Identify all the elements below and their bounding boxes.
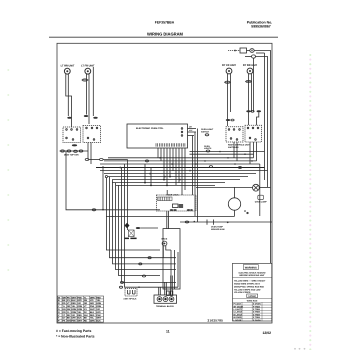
svg-text:LT FR UNIT: LT FR UNIT — [81, 64, 95, 67]
svg-text:RD: RD — [62, 302, 65, 305]
svg-text:GRY: GRY — [96, 311, 101, 314]
svg-text:TERMINAL BLOCK: TERMINAL BLOCK — [156, 305, 175, 308]
svg-text:GN: GN — [84, 299, 88, 302]
svg-text:WHT: WHT — [71, 296, 76, 299]
svg-text:E TRIM: E TRIM — [253, 308, 260, 311]
svg-text:RD: RD — [67, 314, 70, 317]
svg-text:VIO: VIO — [96, 308, 100, 311]
svg-text:E OVEN: E OVEN — [253, 319, 261, 322]
svg-text:E TRIM: E TRIM — [253, 316, 260, 319]
svg-text:VIO: VIO — [90, 299, 94, 302]
svg-text:PNK: PNK — [96, 314, 101, 317]
svg-text:RED: RED — [71, 302, 76, 305]
svg-text:WHT: WHT — [96, 317, 101, 320]
svg-text:WH: WH — [84, 314, 88, 317]
svg-text:VIO: VIO — [71, 314, 75, 317]
svg-text:YELLOW STRIPE AND LOW: YELLOW STRIPE AND LOW — [234, 288, 260, 291]
svg-text:P TRIM: P TRIM — [253, 305, 260, 308]
svg-text:PNK: PNK — [71, 320, 76, 323]
svg-text:5995360867: 5995360867 — [251, 24, 271, 28]
svg-text:OR: OR — [84, 302, 88, 305]
svg-text:RED: RED — [90, 314, 95, 317]
svg-text:PNK: PNK — [77, 296, 82, 299]
svg-text:B LATCH: B LATCH — [234, 313, 243, 316]
svg-text:E TRIM: E TRIM — [253, 313, 260, 316]
svg-text:E TRIM: E TRIM — [253, 311, 260, 314]
svg-text:GN: GN — [67, 308, 71, 311]
svg-text:WHT: WHT — [77, 320, 82, 323]
svg-text:WHT: WHT — [90, 308, 95, 311]
svg-text:BK: BK — [67, 317, 70, 320]
svg-text:ORN: ORN — [96, 305, 101, 308]
svg-text:DISRUPTED. SPRING RUN RED: DISRUPTED. SPRING RUN RED — [234, 285, 265, 288]
svg-text:YELLOW STRIPE.: YELLOW STRIPE. — [234, 291, 251, 294]
svg-text:GRN: GRN — [71, 308, 76, 311]
svg-text:WH: WH — [62, 296, 66, 299]
svg-text:L DOOR: L DOOR — [234, 319, 242, 322]
svg-text:GN: GN — [62, 308, 66, 311]
svg-text:RED: RED — [96, 296, 101, 299]
svg-text:# = Fast-moving Parts: # = Fast-moving Parts — [56, 329, 91, 333]
svg-text:E OVEN: E OVEN — [253, 303, 261, 306]
svg-text:SWITCH: SWITCH — [201, 130, 209, 133]
svg-text:FEF357BBA: FEF357BBA — [155, 21, 175, 25]
svg-text:BK: BK — [84, 317, 87, 320]
svg-text:* = Non-Illustrated Parts: * = Non-Illustrated Parts — [56, 335, 95, 339]
svg-text:ORN: ORN — [71, 311, 76, 314]
svg-text:L CAVITY: L CAVITY — [234, 308, 244, 311]
svg-text:BLK: BLK — [96, 320, 101, 323]
svg-text:ORN: ORN — [90, 296, 95, 299]
svg-text:ANTI-TIP BLK: ANTI-TIP BLK — [123, 298, 137, 301]
svg-text:RT RR UNIT: RT RR UNIT — [243, 64, 258, 67]
svg-text:WH: WH — [67, 320, 71, 323]
svg-text:OVEN LAMP: OVEN LAMP — [255, 200, 268, 203]
svg-text:ELECTRONIC OVEN CTRL: ELECTRONIC OVEN CTRL — [136, 127, 164, 130]
svg-text:SENSOR ASM: SENSOR ASM — [211, 228, 225, 231]
svg-text:BLK: BLK — [77, 317, 82, 320]
svg-text:C LATCH: C LATCH — [234, 311, 243, 314]
svg-text:GRN: GRN — [96, 302, 101, 305]
svg-text:GRY: GRY — [90, 302, 95, 305]
svg-text:YELLOW WIRE — WIRE STEADY: YELLOW WIRE — WIRE STEADY — [234, 279, 266, 282]
svg-text:OR: OR — [67, 305, 71, 308]
svg-text:WOOD WIRE STRIPE ASST.: WOOD WIRE STRIPE ASST. — [234, 282, 261, 285]
svg-text:ORN: ORN — [77, 305, 82, 308]
svg-text:GRY: GRY — [77, 299, 82, 302]
svg-text:BLK: BLK — [90, 311, 95, 314]
svg-text:PNK: PNK — [90, 305, 95, 308]
svg-text:BEFORE SERVICING UNIT: BEFORE SERVICING UNIT — [239, 274, 265, 277]
svg-text:RD: RD — [84, 320, 87, 323]
svg-text:〈AT6X〉: 〈AT6X〉 — [247, 295, 257, 298]
svg-text:BK: BK — [62, 299, 65, 302]
svg-text:BAKE: BAKE — [162, 238, 168, 241]
svg-text:21625785: 21625785 — [208, 318, 224, 322]
svg-text:RT FR UNIT: RT FR UNIT — [222, 64, 236, 67]
svg-text:B DOOR: B DOOR — [234, 316, 243, 319]
svg-text:GRY: GRY — [71, 317, 76, 320]
svg-text:VIO: VIO — [77, 302, 81, 305]
svg-text:LT RR UNIT: LT RR UNIT — [61, 64, 75, 67]
svg-text:MT DOOR: MT DOOR — [234, 305, 244, 308]
svg-text:WIRE RUN: WIRE RUN — [247, 300, 258, 303]
svg-text:RED: RED — [77, 314, 82, 317]
svg-text:DOOR LOCK: DOOR LOCK — [166, 193, 179, 196]
svg-text:WIRING DIAGRAM: WIRING DIAGRAM — [147, 32, 184, 37]
svg-text:12/02: 12/02 — [263, 331, 272, 335]
svg-text:WARNING: WARNING — [245, 267, 257, 270]
svg-text:11: 11 — [166, 329, 170, 333]
svg-text:GRN: GRN — [90, 320, 95, 323]
svg-text:P LOCK: P LOCK — [234, 303, 242, 306]
svg-text:GRN: GRN — [77, 308, 82, 311]
svg-text:BLK: BLK — [71, 299, 76, 302]
svg-text:OR: OR — [62, 311, 66, 314]
